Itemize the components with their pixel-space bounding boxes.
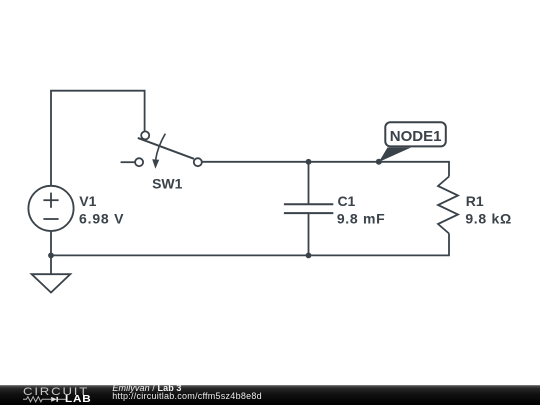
- wire bottom rail from V1 to R1: [50, 231, 52, 274]
- resistor R1 zigzag: [438, 177, 458, 234]
- CircuitLab logo wordmark: [23, 387, 89, 398]
- junction dot C1 top: [306, 159, 312, 165]
- svg-text:6.98 V: 6.98 V: [79, 210, 124, 226]
- svg-text:SW1: SW1: [152, 175, 183, 191]
- svg-text:R1: R1: [466, 193, 484, 209]
- voltage source V1: [28, 186, 73, 231]
- wire top node rail from SW1 right terminal to R1: [202, 162, 449, 177]
- logo resistor-diode glyph: [23, 395, 69, 404]
- SW1 pin 2 terminal (left throw): [135, 158, 143, 166]
- svg-text:NODE1: NODE1: [390, 128, 442, 145]
- switch SW1: [121, 131, 202, 168]
- wire C1 bottom lead: [308, 213, 310, 255]
- junction dot NODE1: [376, 159, 382, 165]
- capacitor C1: [284, 204, 333, 213]
- SW1 pin 1 terminal (top): [141, 131, 149, 139]
- wire C1 top lead: [308, 162, 310, 204]
- junction dot C1 bottom: [306, 253, 312, 259]
- svg-text:9.8 mF: 9.8 mF: [337, 211, 386, 227]
- svg-text:C1: C1: [337, 193, 355, 209]
- SW1 lever arm: [138, 138, 194, 159]
- wire bottom horizontal: [51, 234, 449, 256]
- NODE1 flag box: [385, 122, 446, 146]
- footer bar: [0, 385, 540, 405]
- svg-text:9.8 kΩ: 9.8 kΩ: [465, 210, 512, 226]
- NODE1 flag pointer: [379, 148, 411, 163]
- svg-text:V1: V1: [79, 193, 96, 209]
- junction dot at V1 bottom: [48, 253, 54, 259]
- footer title line: [112, 384, 181, 393]
- SW1 pin 3 terminal (right throw): [194, 158, 202, 166]
- SW1 actuation arrow arc: [156, 134, 166, 160]
- node NODE1 flag: [379, 122, 446, 162]
- footer url line: [112, 392, 262, 401]
- logo LAB text: [65, 395, 92, 405]
- wire top horizontal from V1 to SW1: [51, 91, 145, 186]
- ground: [32, 274, 71, 292]
- SW1 actuation arrowhead: [152, 159, 159, 169]
- wire SW1 unused throw stub: [121, 161, 135, 163]
